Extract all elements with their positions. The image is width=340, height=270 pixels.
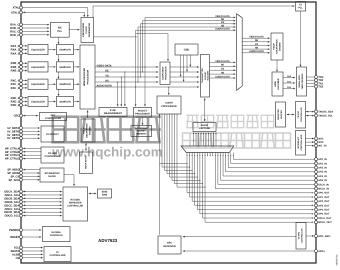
svg-text:CONTROLLER: CONTROLLER [300,107,303,122]
block COMPONENT PROCESSOR CP [160,62,170,85]
svg-text:AP2_IN: AP2_IN [318,167,327,170]
block VIDEO/AUDIO CLOCK GENERATION [81,18,94,43]
svg-text:HDCP: HDCP [83,127,86,134]
pin DDCB_SCL [5,200,23,204]
svg-text:GLOBAL: GLOBAL [51,231,61,234]
block HDCP ENCRYPTION ENGINE [271,33,283,60]
svg-text:HDCP: HDCP [273,43,276,50]
mux audio routing [181,146,234,153]
svg-text:XTAL1: XTAL1 [11,11,20,14]
wire TX HPD controller to HPD_ARC [306,235,314,237]
wire DDCD_SCL [23,215,63,217]
wire RXB_0 [23,62,28,64]
wire RXD_2 [23,104,28,106]
svg-text:AP0_OUT: AP0_OUT [318,192,330,195]
svg-text:RAM: RAM [102,194,107,197]
svg-text:CONTROLLER: CONTROLLER [45,117,61,120]
pin RXD_2 [11,104,23,108]
svg-text:PROCESSOR: PROCESSOR [165,66,168,80]
wire HDCP encryption to HDMI encoder [276,60,278,72]
wire XTAL to clock generation [23,8,89,18]
svg-text:ENGINE: ENGINE [89,126,92,135]
svg-text:TXDDC_SCL: TXDDC_SCL [318,115,333,118]
svg-text:INT1: INT1 [318,137,324,140]
svg-text:HP_CTRLD: HP_CTRLD [5,158,19,161]
pin TX0 [315,79,324,82]
svg-text:SPI MASTER/: SPI MASTER/ [45,172,60,175]
svg-text:PROCESSOR: PROCESSOR [135,112,150,115]
svg-text:TRANSMITTER: TRANSMITTER [201,68,204,83]
svg-text:ENCODER: ENCODER [277,78,280,89]
svg-text:PLL: PLL [298,6,303,9]
wire RX video data bus [95,64,198,87]
pin 5V_DETA [7,127,22,131]
svg-text:VIDEO DATA: VIDEO DATA [97,64,112,67]
wire SDATA [23,250,44,252]
svg-text:PWRDN: PWRDN [9,229,19,232]
wire RXB_C to RX PLL [23,27,50,29]
wire XTAL1 to clock generation [23,12,86,18]
pin HP_CTRLC [5,154,23,158]
wire TXC [307,76,315,78]
block RX HPD CONTROLLER [41,147,64,163]
svg-text:TX HPD: TX HPD [298,231,301,239]
block TX PLL [296,2,306,12]
wire DDCD_SDA [23,211,63,213]
svg-text:CONTROLLER: CONTROLLER [50,254,66,257]
pin INT2 [315,141,325,144]
svg-text:VS: VS [221,68,225,71]
svg-text:MCLK_OUT: MCLK_OUT [318,221,332,224]
pin HP_CTRLA [5,147,23,151]
wire PWRDN [23,229,42,231]
svg-text:DECRYPTION: DECRYPTION [86,123,89,138]
pin DDCC_SDA [4,204,22,208]
wire audio output routing [187,156,314,223]
svg-text:INT2: INT2 [318,141,324,144]
wire TPB to audio capture [204,98,206,121]
svg-text:EQUALIZER: EQUALIZER [31,83,45,86]
svg-text:AP5_OUT: AP5_OUT [318,213,330,216]
svg-text:RX EDID: RX EDID [71,199,81,202]
wire SCL [23,247,44,249]
wire DDCC_SCL [23,208,63,210]
block PACKET PROCESSOR [134,108,152,118]
pin TXC [315,76,324,79]
block RX EDID REPEATER CONTROLLER [63,187,88,221]
svg-text:PACKET: PACKET [138,109,148,112]
pin AP1_OUT [315,196,330,199]
wire bypass loop taps to TX mux [135,15,236,88]
block SAMPLER RXB [57,62,74,72]
svg-text:XTAL: XTAL [12,7,19,10]
block TX HPD CONTROLLER [296,223,306,250]
wire HDCP decryption to HDCP keys [85,143,87,151]
pin AP0_OUT [315,191,330,194]
svg-text:PROCESSOR: PROCESSOR [161,105,177,108]
svg-text:BUILDER: BUILDER [206,71,209,81]
wire SPI to RX EDID controller [64,175,75,187]
svg-text:AUDIO DATA: AUDIO DATA [249,50,264,53]
pin 5V_DETC [7,133,22,137]
wire clock to TX PLL [93,5,295,17]
block EQUALIZER RXB [28,62,48,72]
svg-text:RXA_1: RXA_1 [11,49,20,52]
svg-text:HS: HS [105,79,109,82]
pin DDCD_SCL [5,214,23,218]
svg-text:EDID: EDID [102,191,108,194]
wire ALSB [23,254,44,256]
wire SAMPLER RXC to HDMI receiver [74,83,80,85]
svg-text:VIDEO/AUDIO: VIDEO/AUDIO [82,22,85,37]
block EQUALIZER RXC [28,79,48,89]
wire HP_CTRLD [23,158,42,160]
wire SAMPLER RXA to HDMI receiver [74,49,80,51]
pin ARC [315,250,326,253]
pin TXDDC_SDA [315,110,334,113]
svg-text:EQUALIZER: EQUALIZER [31,66,45,69]
block REGISTER BUFFER [276,102,286,127]
wire RXC_C to RX PLL [23,31,50,33]
svg-text:MEASUREMENT: MEASUREMENT [104,112,123,115]
svg-text:ENCRYPTION: ENCRYPTION [276,39,279,54]
pin RXA_C [10,23,22,27]
node audio mux stubs [187,153,234,157]
pin TX2 [315,85,324,88]
wire RXA_0 [23,45,28,47]
pin SDATA [10,250,22,254]
wire EQUALIZER RXC to SAMPLER [48,83,56,85]
wire RESET [23,236,42,238]
pin RXB_2 [11,69,23,73]
svg-text:CONTROLLER: CONTROLLER [301,228,304,243]
block HDCP DECRYPTION ENGINE [81,119,95,142]
pin RXC_0 [11,79,23,83]
wire RXC_0 [23,80,28,82]
block RX PLL [51,22,70,37]
pin RXC_C [10,30,22,34]
wire EQUALIZER RXB to SAMPLER [48,66,56,68]
wire HPD_ARC to ARC receiver [183,236,296,238]
wire SP_MISO [23,169,41,171]
pin AP4_IN [315,175,327,178]
wire taps to packet processor [135,67,146,107]
wire CP outputs to transmitter packet builder [170,66,199,88]
svg-text:RXA_0: RXA_0 [11,45,20,48]
svg-text:www.hqchip.com: www.hqchip.com [51,145,163,160]
wire RX PLL clock to samplers [58,37,60,96]
wire RXC_2 [23,87,28,89]
svg-text:PLL: PLL [57,30,62,33]
svg-text:HPD_ARC–: HPD_ARC– [318,235,332,238]
wire TXDDC_SCL [306,115,315,117]
pin SP_MISO [7,168,22,172]
svg-text:AP2_OUT: AP2_OUT [318,200,330,203]
svg-text:RXB_1: RXB_1 [11,66,20,69]
block SAMPLER RXC [57,79,74,89]
pin RXC_2 [11,86,23,90]
svg-text:VIDEO DATA: VIDEO DATA [215,60,230,63]
pin CEC [14,114,23,118]
pin SP_CS [10,175,22,179]
svg-text:EQUALIZER: EQUALIZER [31,49,45,52]
svg-text:CS: CS [16,257,20,260]
wire SP_CS [23,176,40,178]
pin RXD_0 [11,96,23,100]
block SERIALIZER TMDS DRIVERS [297,67,307,96]
svg-text:REGISTER: REGISTER [277,109,280,120]
svg-text:HS: HS [255,47,259,50]
pin AP4_OUT [315,208,330,211]
pin AP5_IN [315,179,327,182]
svg-text:PROCESSOR: PROCESSOR [87,69,90,84]
pin AP5_OUT [315,212,330,215]
wire OSD outputs [180,55,192,82]
svg-text:VIDEO DATA: VIDEO DATA [249,36,264,39]
svg-text:DE: DE [105,69,109,72]
wire ARC to ARC receiver [183,250,315,252]
wire SAMPLER RXD to HDMI receiver [74,101,80,103]
wire TX2 [307,86,315,88]
block SPI MASTER/SLAVE [40,168,64,182]
wire HDMI receiver to HDCP decryption [87,110,89,118]
block OSD [175,44,198,55]
block 5V DETECT [41,126,64,142]
svg-text:AP0_IN: AP0_IN [318,158,327,161]
svg-text:COMPONENT: COMPONENT [162,66,165,80]
svg-text:ARC+: ARC+ [318,250,325,253]
pin SP_MOSI [7,172,22,176]
wire 5V_DETC [23,134,41,136]
wire packet processor to infoframe memory [142,117,144,125]
pin TX1 [315,82,324,85]
pin 5V_DETD [7,137,22,141]
block INFOFRAME PACKET MEMORY [131,126,152,137]
svg-text:TXDDC_SDA: TXDDC_SDA [318,111,333,114]
pin RESET [10,236,22,240]
wire audio processor to routing matrix [159,114,206,235]
pin RXC_1 [11,83,23,87]
pin AP2_IN [315,166,327,169]
svg-text:HDCP KEYS: HDCP KEYS [85,156,88,169]
pin INT1 [315,137,325,140]
pin XTAL1 [11,11,23,15]
svg-text:DE: DE [221,64,225,67]
svg-text:CEC: CEC [14,115,20,118]
svg-text:SAMPLER: SAMPLER [59,66,71,69]
pin DDCA_SDA [4,190,22,194]
svg-text:CONTROLS: CONTROLS [50,234,63,237]
pin HPD_ARC [315,235,332,238]
svg-text:I²C: I²C [56,251,59,254]
pin RXA_2 [11,52,23,56]
pin INT_TX [315,144,327,147]
svg-text:SCLK_OUT: SCLK_OUT [318,217,332,220]
svg-text:AUDIO DATA: AUDIO DATA [215,75,230,78]
wire RXB_1 [23,66,28,68]
wire SP_MOSI [23,172,40,174]
svg-text:OSD: OSD [184,48,190,51]
svg-text:MEMORY: MEMORY [136,132,146,135]
svg-text:RXB_2: RXB_2 [11,70,20,73]
pin RXA_0 [11,44,23,48]
svg-text:HDMI RECEIVER: HDMI RECEIVER [83,68,86,87]
svg-text:06506-001: 06506-001 [335,254,338,266]
wire TX1 [307,82,315,84]
svg-text:ADV7623: ADV7623 [98,238,118,243]
svg-text:RXC_0: RXC_0 [11,80,20,83]
svg-text:5V_DETD: 5V_DETD [7,137,19,140]
pin RXB_1 [11,65,23,69]
pin HP_CTRLB [5,150,23,154]
wire RX EDID controller to EDID RAM [89,193,97,195]
svg-text:RECEIVER: RECEIVER [163,245,175,248]
svg-text:VS: VS [255,43,259,46]
block INTERRUPT CONTROLLERS [296,131,306,156]
svg-text:TMDS DRIVERS: TMDS DRIVERS [301,73,304,89]
block CEC CONTROLLER [40,113,67,121]
pin 5V_DETB [7,130,22,134]
pin RXD_1 [11,100,23,104]
svg-text:DDCD_SCL: DDCD_SCL [5,215,20,218]
block AUDIO CAPTURE [193,123,216,132]
svg-text:AP5_IN: AP5_IN [318,179,327,182]
wire DDCC_SDA [23,204,63,206]
wire encoder channels CH0 CH1 CH2 [283,75,295,90]
block SYNC MEASUREMENT [99,108,127,117]
wire RXD_C to RX PLL [23,34,50,36]
svg-text:CONTROLLER: CONTROLLER [45,155,61,158]
wire TPB outputs to TX mux [210,60,236,79]
svg-text:DE: DE [255,39,259,42]
wire CEC [23,115,39,117]
wire 5V_DETD [23,137,41,139]
pin SCLK_IN [315,183,329,186]
svg-text:MCLK_IN: MCLK_IN [318,188,329,191]
svg-text:ENGINE: ENGINE [279,42,282,51]
svg-text:REPEATER: REPEATER [69,202,82,205]
pin SCLK_OUT [315,217,332,220]
svg-text:RXC_1: RXC_1 [11,83,20,86]
svg-text:RXC_2: RXC_2 [11,87,20,90]
pin AP3_IN [315,170,327,173]
svg-text:AP3_OUT: AP3_OUT [318,204,330,207]
svg-text:RXD_C: RXD_C [10,34,19,37]
svg-text:SP_SCK: SP_SCK [9,179,20,182]
wire CS [23,257,44,259]
pin MCLK_IN [315,187,330,190]
pin AP3_OUT [315,204,330,207]
svg-text:CONTROLLER: CONTROLLER [67,205,83,208]
svg-text:RXA_2: RXA_2 [11,52,20,55]
watermark: big gray CJK "HQ chip city" [53,117,161,143]
pin RXB_C [10,27,22,31]
wire EQUALIZER RXD to SAMPLER [48,101,56,103]
watermark: light CJK row 2 [183,133,291,148]
wire mux to audio capture [193,132,217,146]
block HDMI RECEIVER PROCESSOR [80,45,95,109]
wire RXB_2 [23,70,28,72]
wire 5V_DETA [23,127,41,129]
wire TX0 [307,79,315,81]
svg-text:BUFFER: BUFFER [280,110,283,119]
block HDMI ENCODER [272,72,283,96]
pin SP_SCK [9,178,23,182]
block EQUALIZER RXA [28,45,48,55]
svg-text:AUDIO DATA: AUDIO DATA [215,28,230,31]
pin AP1_IN [315,162,327,165]
block ARC RECEIVER [158,236,181,254]
wire TX PLL to serializer [300,11,302,67]
pin DDCC_SCL [5,207,23,211]
svg-text:SYNC: SYNC [110,109,117,112]
svg-text:INTERRUPT: INTERRUPT [297,136,300,149]
wire INT2 [306,141,315,143]
wire TXDDC_SDA [306,111,315,113]
pin SCL [14,246,23,250]
wire DDCB_SDA [23,198,63,200]
svg-text:SAMPLER: SAMPLER [59,100,71,103]
wire mux outputs to HDCP encryption [242,36,270,54]
pin RXA_1 [11,48,23,52]
svg-text:AP3_IN: AP3_IN [318,171,327,174]
svg-text:RESET: RESET [10,236,19,239]
svg-text:SCLK_IN: SCLK_IN [318,183,329,186]
svg-text:AP4_IN: AP4_IN [318,175,327,178]
svg-text:CEC: CEC [51,114,56,117]
wire SP_SCK [23,179,40,181]
block EQUALIZER RXD [28,96,48,106]
svg-text:AP1_IN: AP1_IN [318,162,327,165]
wire RXA_C to RX PLL [23,24,50,26]
svg-text:RX HPD: RX HPD [48,152,57,155]
svg-text:EQUALIZER: EQUALIZER [31,100,45,103]
pin CS [16,256,23,260]
svg-text:5V DETECT: 5V DETECT [46,133,59,136]
wire clock out right [94,36,138,38]
wire HP_CTRLA [23,148,42,150]
pin DDCA_SCL [5,193,23,197]
svg-text:AUDIO DATA: AUDIO DATA [97,84,113,87]
pin MCLK_OUT [315,221,333,224]
wire RXA_2 [23,52,28,54]
svg-text:SERIALIZER: SERIALIZER [298,75,301,88]
svg-text:AP4_OUT: AP4_OUT [318,209,330,212]
mux TX input select [237,14,243,91]
svg-text:TX: TX [299,3,302,6]
svg-text:RXD_2: RXD_2 [11,104,20,107]
wire DDCA_SCL [23,194,63,196]
pin AP0_IN [315,158,327,161]
svg-text:INFOFRAME: INFOFRAME [135,127,149,130]
block HDCP KEYS [80,152,93,173]
block AUDIO PROCESSOR [157,96,181,114]
block SAMPLER RXA [57,45,74,55]
svg-text:SAMPLER: SAMPLER [59,83,71,86]
watermark: light CJK row 1 [186,115,274,128]
wire RXD_1 [23,101,28,103]
block TX DDC CONTROLLER [296,102,306,129]
wire HP_CTRLB [23,151,42,153]
pin PWRDN [9,229,22,233]
wire RX PLL to clock generation [69,29,80,31]
svg-text:AP1_OUT: AP1_OUT [318,196,330,199]
pin DDCB_SDA [4,197,22,201]
wire INT1 [306,138,315,140]
wire HP_CTRLC [23,154,42,156]
svg-text:CAPTURE: CAPTURE [199,127,211,130]
wire audio data to audio processor [168,86,170,95]
